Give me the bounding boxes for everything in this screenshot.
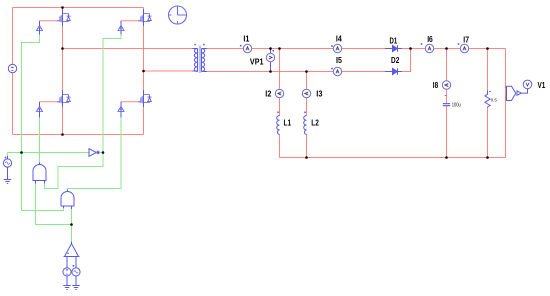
wire NOT out down to AND1 right input xyxy=(45,153,104,189)
wire NOT output stub xyxy=(100,152,103,154)
comparator U4 xyxy=(64,244,80,257)
svg-text:D1: D1 xyxy=(390,35,398,45)
mark I5 xyxy=(331,68,333,70)
node VP1 top xyxy=(269,47,272,50)
wire left leg upper xyxy=(62,8,64,91)
mark Vcar xyxy=(73,265,75,267)
ammeter I6 xyxy=(425,44,433,52)
node primary bottom xyxy=(142,70,145,73)
node diode join xyxy=(409,47,412,50)
svg-text:I8: I8 xyxy=(433,80,439,90)
svg-text:I2: I2 xyxy=(265,88,271,98)
Vdc source VDC1 xyxy=(8,64,16,72)
node sig split xyxy=(20,151,23,154)
gate driver 1 (on-off controller) xyxy=(37,26,43,34)
wire AND1 output to Q3 driver xyxy=(39,118,41,163)
wire V1 sense vertical xyxy=(505,49,507,158)
wire pin VP1 xyxy=(270,49,272,72)
clock icon xyxy=(169,6,187,24)
wire D1 to node xyxy=(402,48,411,50)
wire bridge bottom rail xyxy=(13,134,144,136)
node bottom rail / left leg xyxy=(61,133,64,136)
wire pin V1 sensor xyxy=(506,88,507,99)
mark L1 xyxy=(277,112,279,114)
svg-text:I6: I6 xyxy=(427,34,433,44)
wire NOT out up to Q2 driver xyxy=(103,35,121,153)
wire L1 branch vertical xyxy=(279,49,281,158)
mosfet Q1 xyxy=(57,9,71,26)
AND gate U1 xyxy=(33,165,46,181)
diode D1 xyxy=(385,45,402,51)
wire capacitor branch xyxy=(446,49,448,158)
wire comparator node to AND1 left input xyxy=(36,184,72,225)
ammeter I3 xyxy=(302,89,310,97)
svg-text:VP1: VP1 xyxy=(250,56,264,66)
voltage sensor V1 xyxy=(507,80,532,100)
wire pin driver3 xyxy=(39,102,41,118)
wire AND2 output to Q4 driver xyxy=(68,118,122,190)
wire pin Vsig xyxy=(7,156,9,179)
ammeter I5 xyxy=(333,67,341,75)
ammeter I7 xyxy=(460,44,468,52)
svg-text:I7: I7 xyxy=(463,34,469,44)
svg-text:I5: I5 xyxy=(336,55,342,65)
voltage probe VP1 xyxy=(266,53,274,61)
ground (under Vm) xyxy=(63,286,70,290)
wire pin comparator xyxy=(67,242,76,268)
ground (under Vcar) xyxy=(72,286,79,290)
node VP1 bottom xyxy=(269,70,272,73)
inductor L2 xyxy=(304,116,307,135)
mark Vsig xyxy=(5,157,7,159)
wire pin comp sources to ground xyxy=(67,276,76,285)
ammeter I8 xyxy=(442,81,450,89)
svg-text:I1: I1 xyxy=(243,33,249,43)
node L2 top xyxy=(305,70,308,73)
wire secondary bottom run xyxy=(207,71,385,73)
capacitor C1 100u xyxy=(443,96,450,106)
ammeter I2 xyxy=(275,89,283,97)
signal source Vsig (sine) xyxy=(3,159,11,167)
AND gate U2 xyxy=(61,192,74,206)
wire primary top xyxy=(63,48,193,50)
mosfet Q3 xyxy=(57,90,71,107)
node primary top xyxy=(61,47,64,50)
wire comparator output riser xyxy=(71,209,73,242)
node cap top xyxy=(445,47,448,50)
node resistor bottom xyxy=(486,156,489,159)
wire resistor branch xyxy=(487,49,489,158)
wire pin driver4 xyxy=(120,102,122,118)
mark I6 xyxy=(421,43,423,45)
wire gate Q4 xyxy=(121,101,138,103)
node cap bottom xyxy=(445,156,448,159)
mark L2 xyxy=(304,112,306,114)
mark VP1 xyxy=(272,50,274,52)
wire pin driver1 xyxy=(39,21,41,35)
mark I7 xyxy=(458,43,460,45)
source Vm (comparator left, DC) xyxy=(63,268,71,276)
mark I1 xyxy=(240,45,242,47)
wire Vsig to NOT input xyxy=(8,152,90,154)
mark I4 xyxy=(331,45,333,47)
svg-text:D2: D2 xyxy=(391,55,400,65)
node L2 bottom xyxy=(305,156,308,159)
wire secondary top run xyxy=(207,48,385,50)
wire pin AND1 xyxy=(36,163,45,184)
svg-text:I3: I3 xyxy=(316,88,322,98)
wire right leg lower xyxy=(143,107,145,135)
wire pin driver2 xyxy=(120,21,122,35)
source Vcar (comparator right, sine) xyxy=(72,268,80,276)
wire gate Q1 xyxy=(40,20,58,22)
wire top rail xyxy=(13,7,144,9)
inductor L1 xyxy=(277,116,280,135)
wire primary bottom xyxy=(144,70,193,72)
wire left leg lower xyxy=(62,107,64,135)
gate driver 2 xyxy=(118,26,124,34)
node top rail / left leg xyxy=(61,6,64,9)
wire L2 branch vertical xyxy=(306,72,308,158)
resistor R1 0.5 xyxy=(485,91,491,108)
svg-text:V1: V1 xyxy=(538,80,546,90)
wire output bottom rail xyxy=(280,157,506,159)
ammeter I1 xyxy=(243,44,251,52)
svg-text:L1: L1 xyxy=(284,118,292,128)
wire gate Q3 xyxy=(40,101,58,103)
node L1 top xyxy=(278,47,281,50)
mosfet Q4 xyxy=(138,90,152,107)
mosfet Q2 xyxy=(138,9,152,26)
svg-text:L2: L2 xyxy=(311,118,319,128)
wire node to I6 to I7 to corner xyxy=(411,48,506,50)
ground (under Vsig) xyxy=(4,180,11,184)
svg-text:100u: 100u xyxy=(452,102,461,108)
wire node A down branch to AND2 left input xyxy=(22,153,64,211)
wire Vsig pin up xyxy=(7,153,9,157)
wire pin AND2 xyxy=(64,190,72,210)
wire node A up branch to Q1 driver xyxy=(22,35,40,153)
diode D2 xyxy=(385,68,402,74)
gate driver 4 xyxy=(118,107,124,115)
node comparator out xyxy=(70,223,73,226)
NOT gate U3 xyxy=(89,149,100,157)
wire right leg upper xyxy=(143,8,145,91)
wire left source branch vertical xyxy=(12,8,14,135)
wire gate Q2 xyxy=(121,20,138,22)
svg-text:I4: I4 xyxy=(336,34,342,44)
ammeter I4 xyxy=(333,44,341,52)
node NOT out xyxy=(102,151,105,154)
node resistor top xyxy=(486,47,489,50)
wire D2 to node riser xyxy=(402,49,411,72)
gate driver 3 xyxy=(37,107,43,115)
svg-text:0.5: 0.5 xyxy=(491,97,498,102)
transformer TX1 xyxy=(193,44,208,73)
